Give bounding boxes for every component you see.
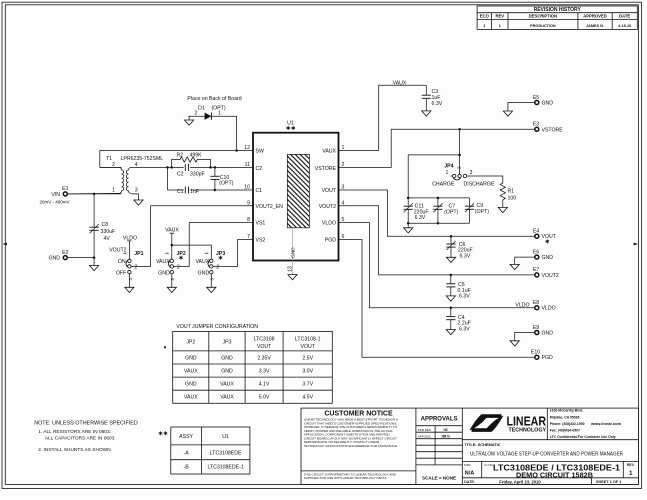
JP4 pin 1 xyxy=(453,174,456,177)
svg-text:DISCHARGE: DISCHARGE xyxy=(464,181,495,187)
svg-text:6.3V: 6.3V xyxy=(460,253,471,259)
svg-text:GND: GND xyxy=(185,355,197,361)
JP3 star xyxy=(219,256,223,260)
svg-text:Phone: (408)432-1900: Phone: (408)432-1900 xyxy=(550,422,585,426)
svg-text:HZ: HZ xyxy=(444,428,448,432)
svg-text:JP3: JP3 xyxy=(223,340,232,346)
svg-text:VSTORE: VSTORE xyxy=(315,166,337,172)
svg-text:3.3V: 3.3V xyxy=(259,369,270,375)
wire JP4 pin 3 to R1 xyxy=(467,176,503,182)
logo / address divider xyxy=(546,408,548,440)
table star marker xyxy=(164,346,166,348)
svg-text:6.3V: 6.3V xyxy=(432,101,443,107)
svg-text:VSTORE: VSTORE xyxy=(542,127,564,133)
svg-text:ECO: ECO xyxy=(480,14,490,19)
svg-text:CHARGE: CHARGE xyxy=(432,181,455,187)
ground at C6 xyxy=(446,257,455,262)
svg-text:-B: -B xyxy=(184,464,190,470)
svg-text:4.1V: 4.1V xyxy=(259,382,270,388)
svg-text:GND: GND xyxy=(542,331,554,337)
svg-text:APPROVALS: APPROVALS xyxy=(421,417,458,423)
svg-text:R2: R2 xyxy=(177,153,184,159)
svg-text:6.3V: 6.3V xyxy=(415,215,426,221)
svg-text:4-15-10: 4-15-10 xyxy=(618,24,631,28)
svg-text:LTC3108-1: LTC3108-1 xyxy=(295,337,321,343)
svg-text:C2: C2 xyxy=(256,166,263,172)
svg-text:VAUX: VAUX xyxy=(322,149,336,155)
wire bank to ground xyxy=(407,223,409,228)
JP4 pin 1 stub xyxy=(451,175,453,177)
svg-text:VOUT: VOUT xyxy=(257,344,272,350)
svg-text:3: 3 xyxy=(135,188,138,194)
ground at T1 pin 3 xyxy=(134,200,143,205)
ground at C3 xyxy=(422,111,431,116)
svg-text:LTC3108: LTC3108 xyxy=(254,337,275,343)
wire VAUX stub to JP2 pin 1 xyxy=(171,233,173,259)
svg-text:(OPT): (OPT) xyxy=(219,181,233,187)
node C10 bottom junction xyxy=(214,189,217,192)
wire T1 pin3 to ground xyxy=(131,194,138,200)
wire SW net (pin 12) xyxy=(100,151,253,168)
svg-text:6.3V: 6.3V xyxy=(459,294,470,300)
svg-text:NOTE: UNLESS OTHERWISE SPECIFI: NOTE: UNLESS OTHERWISE SPECIFIED xyxy=(34,421,138,427)
svg-text:1: 1 xyxy=(112,188,115,194)
svg-text:VLDO: VLDO xyxy=(515,303,529,309)
terminal E2 xyxy=(63,256,67,260)
svg-text:20mV - 400mV: 20mV - 400mV xyxy=(39,200,69,205)
ground at JP3 xyxy=(207,287,216,292)
capacitor C4 xyxy=(450,308,452,317)
wire JP1 pin3 to ground xyxy=(128,274,130,288)
svg-text:3: 3 xyxy=(470,170,473,176)
JP3 shunt bracket xyxy=(208,260,210,267)
svg-text:SW: SW xyxy=(256,149,264,155)
svg-text:VS2: VS2 xyxy=(256,238,266,244)
ground at E6 xyxy=(510,264,519,269)
svg-text:C8: C8 xyxy=(102,222,109,228)
node R2 left junction xyxy=(170,166,173,169)
svg-text:9: 9 xyxy=(247,200,250,206)
svg-text:VOUT2: VOUT2 xyxy=(109,248,126,254)
terminal E8 xyxy=(535,306,539,310)
svg-text:GND: GND xyxy=(198,270,210,276)
wire C8 top lead xyxy=(93,194,95,227)
svg-text:PGD: PGD xyxy=(542,355,553,361)
JP4 pin 2 xyxy=(458,174,461,177)
capacitor C8 xyxy=(90,224,99,233)
node E2/C8 junction xyxy=(93,256,96,259)
svg-text:4: 4 xyxy=(135,162,138,168)
terminal E10 xyxy=(535,355,539,359)
wire VOUT net from pin 3 xyxy=(339,190,535,236)
diode D1 xyxy=(205,113,212,120)
svg-text:499K: 499K xyxy=(190,153,203,159)
svg-text:SUPPLIED FOR USE WITH LINEAR T: SUPPLIED FOR USE WITH LINEAR TECHNOLOGY … xyxy=(304,476,388,480)
wire E2 to C8 xyxy=(68,257,95,259)
customer notice box xyxy=(415,408,417,484)
terminal E9 xyxy=(535,331,539,335)
svg-text:PRODUCTION: PRODUCTION xyxy=(530,24,556,28)
wire VLDO net from pin 5 xyxy=(339,223,535,308)
JP1 shunt dash xyxy=(123,252,126,254)
wire E9 to ground xyxy=(515,333,535,341)
resistor R1 xyxy=(500,182,505,204)
svg-text:1: 1 xyxy=(446,170,449,176)
svg-text:REV.: REV. xyxy=(627,463,635,467)
node C11 bottom junction xyxy=(407,222,410,225)
svg-text:D1: D1 xyxy=(198,105,205,111)
node C7 bottom junction xyxy=(437,222,440,225)
svg-text:VIN: VIN xyxy=(51,192,60,198)
svg-text:1: 1 xyxy=(218,111,221,117)
svg-text:330pF: 330pF xyxy=(190,172,205,178)
wire R1 to ground xyxy=(502,204,504,208)
svg-text:SHEET 1 OF 1: SHEET 1 OF 1 xyxy=(596,480,621,484)
wire VSTORE down to JP4 pin 2 xyxy=(459,129,461,174)
svg-text:PCB DES.: PCB DES. xyxy=(418,428,432,432)
wire storage cap bank top rail xyxy=(408,197,469,199)
node VLDO/C4 junction xyxy=(450,306,453,309)
JP2 shunt bracket xyxy=(168,260,170,267)
T1 primary winding xyxy=(68,167,124,194)
node VIN/C8 junction xyxy=(93,193,96,196)
svg-text:GND: GND xyxy=(221,369,233,375)
capacitor C3 xyxy=(425,85,427,95)
svg-text:10: 10 xyxy=(244,184,250,190)
svg-text:LTC Confidential-For Customer: LTC Confidential-For Customer Use Only xyxy=(550,435,616,439)
svg-text:VOUT: VOUT xyxy=(542,234,557,240)
wire PGD net from pin 6 xyxy=(339,240,535,358)
JP4 pin 3 xyxy=(463,174,466,177)
svg-text:ON: ON xyxy=(118,259,126,265)
svg-text:VOUT2: VOUT2 xyxy=(319,204,336,210)
svg-text:2: 2 xyxy=(135,264,138,270)
capacitor C6 xyxy=(450,236,452,244)
svg-text:DATE:: DATE: xyxy=(464,480,475,484)
ground at C11 bank xyxy=(404,228,413,233)
assembly table stars ** xyxy=(159,431,163,435)
svg-text:LTC3108EDE-1: LTC3108EDE-1 xyxy=(207,464,243,470)
svg-text:VAUX: VAUX xyxy=(184,369,198,375)
JP3 pin 1 xyxy=(210,259,213,262)
svg-text:VLDO: VLDO xyxy=(542,306,556,312)
JP3 pin 3 xyxy=(210,270,213,273)
ground for pin 13 xyxy=(288,275,297,280)
ground at D1 anode xyxy=(185,120,194,125)
node C11 top junction xyxy=(407,197,410,200)
svg-text:1nF: 1nF xyxy=(190,189,199,195)
title block outline xyxy=(301,408,638,484)
svg-text:VOUT2: VOUT2 xyxy=(542,273,559,279)
svg-text:LPR6235-752SML: LPR6235-752SML xyxy=(121,156,164,162)
svg-text:JAMES N.: JAMES N. xyxy=(586,24,604,28)
JP1 pin 3 xyxy=(128,270,131,273)
svg-text:GND: GND xyxy=(291,247,297,258)
svg-text:VLDO: VLDO xyxy=(123,235,137,241)
terminal E7 xyxy=(535,273,539,277)
svg-text:E1: E1 xyxy=(62,186,68,192)
ground at E9 xyxy=(510,341,519,346)
svg-text:GND: GND xyxy=(542,100,554,106)
svg-text:13: 13 xyxy=(287,266,293,272)
svg-text:GND: GND xyxy=(48,256,60,262)
svg-text:JP4: JP4 xyxy=(444,164,453,170)
svg-text:3: 3 xyxy=(342,184,345,190)
U1 assembly stars ** xyxy=(286,126,290,130)
svg-text:REV: REV xyxy=(495,14,504,19)
address block xyxy=(550,409,622,439)
node VOUT/C6 junction xyxy=(450,235,453,238)
svg-text:2.5V: 2.5V xyxy=(302,355,313,361)
svg-text:Place on Back of Board: Place on Back of Board xyxy=(187,96,241,102)
svg-text:U1: U1 xyxy=(222,434,229,440)
border zone arrow left xyxy=(3,243,7,246)
svg-text:DESCRIPTION: DESCRIPTION xyxy=(529,14,558,19)
svg-text:N/A: N/A xyxy=(465,471,475,477)
ground at JP2 xyxy=(167,287,176,292)
svg-text:U1: U1 xyxy=(287,121,294,127)
node C10 top junction xyxy=(214,166,217,169)
wire VIN to T1 pin 1 xyxy=(68,193,122,195)
svg-text:VOUT JUMPER CONFIGURATION: VOUT JUMPER CONFIGURATION xyxy=(176,324,258,330)
svg-text:www.linear.com: www.linear.com xyxy=(590,421,622,426)
capacitor C1 (series) xyxy=(184,187,186,194)
ground at R1 xyxy=(498,207,507,212)
wire E5 to ground xyxy=(508,103,535,112)
U1 thermal pad (hatched) xyxy=(287,154,309,227)
svg-text:3.0V: 3.0V xyxy=(302,369,313,375)
svg-text:VLDO: VLDO xyxy=(322,221,336,227)
svg-text:4: 4 xyxy=(342,200,345,206)
wire to ground xyxy=(93,258,95,266)
node VSTORE/JP4 junction xyxy=(458,128,461,131)
node storage branch junction xyxy=(458,154,461,157)
svg-text:SCALE = NONE: SCALE = NONE xyxy=(422,476,456,481)
svg-text:8: 8 xyxy=(247,217,250,223)
svg-text:1630 McCarthy Blvd.: 1630 McCarthy Blvd. xyxy=(550,409,583,413)
svg-text:2: 2 xyxy=(216,264,219,270)
svg-text:(OPT): (OPT) xyxy=(475,209,489,215)
JP3 pin 2 xyxy=(210,265,213,268)
svg-text:VAUX: VAUX xyxy=(393,80,407,86)
terminal E5 xyxy=(535,101,539,105)
svg-text:PGD: PGD xyxy=(325,238,336,244)
svg-text:OFF: OFF xyxy=(116,270,126,276)
svg-text:REVISION HISTORY: REVISION HISTORY xyxy=(534,7,582,13)
wire JP2 pin3 to ground xyxy=(171,274,173,288)
ground at E2 xyxy=(90,266,99,271)
JP3 shunt dash xyxy=(205,252,208,254)
resistor R2 xyxy=(172,157,211,168)
terminal E6 xyxy=(535,255,539,259)
svg-text:JIM N.: JIM N. xyxy=(441,434,451,438)
svg-text:Fax: (408)434-0507: Fax: (408)434-0507 xyxy=(550,429,580,433)
capacitor C5 xyxy=(450,275,452,284)
terminal E1 xyxy=(63,192,67,196)
svg-text:VS1: VS1 xyxy=(256,221,266,227)
svg-text:VAUX: VAUX xyxy=(165,228,179,234)
ground at C5 xyxy=(446,296,455,301)
svg-text:2. INSTALL SHUNTS AS SHOWN.: 2. INSTALL SHUNTS AS SHOWN. xyxy=(38,447,112,453)
wire E6 to ground xyxy=(515,257,535,264)
wire pin 8 VS1 net xyxy=(173,223,253,267)
svg-text:TITLE: SCHEMATIC: TITLE: SCHEMATIC xyxy=(465,442,501,447)
wire VAUX feed to JP3 pin 1 xyxy=(172,245,212,259)
wire VSTORE net from pin 2 xyxy=(339,129,535,167)
svg-text:C1: C1 xyxy=(256,188,263,194)
wire storage cap bank bottom rail xyxy=(408,222,469,224)
svg-text:GND: GND xyxy=(542,255,554,261)
terminal E4 xyxy=(535,234,539,238)
approvals box xyxy=(461,408,463,484)
svg-text:-A: -A xyxy=(184,450,190,456)
JP4 shunt bracket xyxy=(453,178,460,180)
assembly version table xyxy=(171,427,250,474)
capacitor C11 xyxy=(407,198,409,206)
svg-text:VOUT: VOUT xyxy=(300,344,315,350)
wire C1 net lower loop xyxy=(168,167,184,190)
capacitor C7 xyxy=(437,198,439,206)
T1 secondary winding xyxy=(126,167,131,193)
svg-text:12: 12 xyxy=(244,145,250,151)
svg-text:APP ENG.: APP ENG. xyxy=(418,434,432,438)
svg-text:6.3V: 6.3V xyxy=(459,326,470,332)
JP2 pin 2 xyxy=(170,265,173,268)
svg-text:7: 7 xyxy=(247,234,250,240)
wire VLDO stub to JP1 pin1 xyxy=(128,241,130,260)
svg-text:5.0V: 5.0V xyxy=(259,395,270,401)
svg-text:CUSTOMER NOTICE: CUSTOMER NOTICE xyxy=(324,411,393,418)
svg-text:6: 6 xyxy=(342,234,345,240)
svg-text:GND: GND xyxy=(221,355,233,361)
JP1 shunt bracket xyxy=(126,260,128,267)
svg-text:E10: E10 xyxy=(531,350,540,356)
capacitor C2 (series) xyxy=(184,164,186,171)
capacitor C9 xyxy=(469,198,471,206)
svg-text:5: 5 xyxy=(342,217,345,223)
svg-text:DATE: DATE xyxy=(619,14,630,19)
capacitor C10 xyxy=(214,167,216,176)
svg-text:2: 2 xyxy=(112,162,115,168)
svg-text:LINEAR: LINEAR xyxy=(507,414,547,428)
wire D1 branch xyxy=(189,116,237,150)
svg-text:TECHNOLOGY APPLICATIONS ENGINE: TECHNOLOGY APPLICATIONS ENGINEERING FOR … xyxy=(304,444,398,448)
terminal E3 xyxy=(535,127,539,131)
wire VOUT2 net from pin 4 xyxy=(339,206,535,275)
rev cell xyxy=(622,461,624,477)
svg-text:C2: C2 xyxy=(177,172,184,178)
Linear Technology logo mark xyxy=(469,414,501,430)
op-amp/IC U1 LTC3108 body xyxy=(253,133,339,261)
wire JP3 pin3 to ground xyxy=(210,274,212,288)
svg-text:100: 100 xyxy=(508,195,517,201)
svg-text:(OPT): (OPT) xyxy=(444,209,458,215)
revision history table xyxy=(477,6,637,29)
wire VAUX net from pin 1 xyxy=(339,85,427,150)
node VAUX/JP3 feed junction xyxy=(171,244,174,247)
svg-text:JP1: JP1 xyxy=(134,251,143,257)
node SW/D1 junction xyxy=(235,149,238,152)
svg-text:330uF: 330uF xyxy=(101,229,116,235)
wire pin 7 VS2 net xyxy=(213,240,253,267)
ground at E5 xyxy=(503,111,512,116)
JP1 pin 2 xyxy=(128,265,131,268)
svg-text:Milpitas, CA 95035: Milpitas, CA 95035 xyxy=(550,415,580,419)
svg-text:ALL CAPACITORS ARE IN 0603.: ALL CAPACITORS ARE IN 0603. xyxy=(45,436,116,442)
JP2 pin 1 xyxy=(170,259,173,262)
svg-text:SIZE: SIZE xyxy=(464,463,471,467)
size cell xyxy=(481,461,483,477)
svg-text:2: 2 xyxy=(195,111,198,117)
svg-text:VAUX: VAUX xyxy=(220,382,234,388)
JP2 star xyxy=(179,256,183,260)
svg-text:ASSY: ASSY xyxy=(179,434,193,440)
ground at C4 xyxy=(446,330,455,335)
wire C8 bottom lead xyxy=(93,230,95,257)
date row xyxy=(462,477,638,479)
svg-text:1: 1 xyxy=(342,145,345,151)
svg-text:2.35V: 2.35V xyxy=(257,355,271,361)
svg-text:VAUX: VAUX xyxy=(220,395,234,401)
svg-text:VAUX: VAUX xyxy=(184,395,198,401)
svg-text:4V: 4V xyxy=(104,236,111,242)
svg-text:JP2: JP2 xyxy=(186,340,195,346)
border zone arrow right xyxy=(634,243,638,246)
svg-text:2: 2 xyxy=(177,264,180,270)
svg-text:LTC3108EDE: LTC3108EDE xyxy=(210,450,242,456)
svg-text:1. ALL RESISTORS ARE IN 0603.: 1. ALL RESISTORS ARE IN 0603. xyxy=(38,429,111,435)
svg-text:GND: GND xyxy=(185,382,197,388)
svg-text:ULTRALOW VOLTAGE STEP-UP CONVE: ULTRALOW VOLTAGE STEP-UP CONVERTER AND P… xyxy=(470,452,623,458)
E4 star xyxy=(545,239,549,243)
node C7 top junction xyxy=(437,197,440,200)
svg-text:4.5V: 4.5V xyxy=(302,395,313,401)
ground at JP1 xyxy=(125,287,134,292)
JP2 shunt dash xyxy=(166,252,169,254)
wire T1 pin2 to SW corner xyxy=(100,166,122,168)
svg-text:R1: R1 xyxy=(508,188,515,194)
svg-text:VOUT2_EN: VOUT2_EN xyxy=(256,204,284,210)
JP2 pin 3 xyxy=(170,270,173,273)
svg-text:3.7V: 3.7V xyxy=(302,382,313,388)
node R2 right junction xyxy=(209,166,212,169)
wire C2 net: T1 pin4 to IC pin 11 with series C2 xyxy=(131,166,184,168)
node C1 left junction xyxy=(166,166,169,169)
U1 pad GND stem xyxy=(292,228,294,275)
svg-text:VOUT: VOUT xyxy=(322,188,337,194)
node VOUT2/C5 junction xyxy=(450,274,453,277)
wire pin 9 VOUT2_EN net xyxy=(131,206,253,267)
wire storage branch to C11 rail xyxy=(408,155,459,198)
svg-text:TECHNOLOGY: TECHNOLOGY xyxy=(509,428,547,434)
JP1 pin 1 xyxy=(128,259,131,262)
svg-text:APPROVED: APPROVED xyxy=(583,14,607,19)
svg-text:Friday, April 23, 2010: Friday, April 23, 2010 xyxy=(499,479,541,484)
svg-text:C1: C1 xyxy=(177,189,184,195)
svg-text:GND: GND xyxy=(158,270,170,276)
